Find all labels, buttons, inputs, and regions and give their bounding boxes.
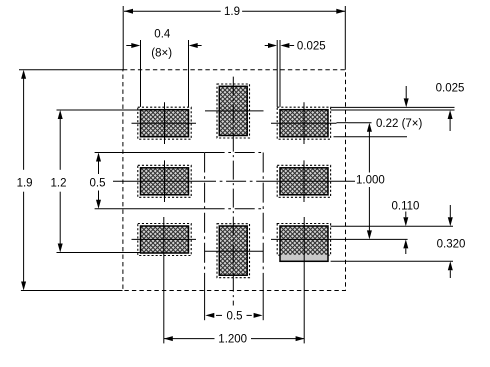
pad P7 horizontal centerline [205,250,264,252]
svg-text:0.5: 0.5 [90,177,106,189]
body outline (dashed component body) [123,70,346,291]
pad P8 covered copper strip (gray) [280,255,328,261]
svg-text:0.4: 0.4 [154,29,171,41]
centroid rectangle (dash-dot 0.5 zone verticals) [205,153,264,292]
pad P3 centerlines [271,102,337,144]
P8 copper top extension line [331,225,453,227]
row1 centerline right extension dash-dot [337,123,349,240]
pad P6 centerlines [132,217,197,343]
dimension 1.000 [368,126,370,236]
pad P8 mask opening (row3 right) [277,224,330,256]
middle column vertical centerline (dash-dot) [232,77,234,306]
dimension 0.320 [449,205,451,278]
dimension 1.200 [164,338,304,340]
dimension 0.4 (8x) [126,40,201,107]
pad P7 mask opening (row3 middle tall) [217,224,250,278]
svg-text:1.9: 1.9 [224,6,240,18]
svg-text:0.025: 0.025 [297,41,326,53]
pad P5 mask opening (row2 right) [277,165,330,197]
pad P8 copper hatched part (row3 right) [280,226,328,255]
P8 copper bottom extension line [331,260,453,262]
pad P4 mask opening (row2 left) [138,165,191,197]
svg-text:1.200: 1.200 [218,334,247,346]
dimension 1.9 left [19,70,123,291]
dimension 0.025 top [265,40,294,107]
pad P5 copper (row2 right) [280,168,328,195]
pad P3 mask opening (row1 right) [277,107,330,139]
dimension 0.5 bottom [216,314,252,316]
pad P1 copper (row1 left) [141,110,189,137]
dimension 1.2 [57,110,141,253]
pad P2 mask opening (row1 middle tall) [217,84,250,138]
svg-text:0.110: 0.110 [392,201,420,213]
pad P5 centerlines [271,160,337,202]
svg-text:1.000: 1.000 [356,175,385,187]
svg-text:0.5: 0.5 [227,310,243,322]
row1 copper bottom extension line [334,136,408,138]
svg-text:0.025: 0.025 [436,83,465,95]
row2 centerline dash-dot extensions [113,180,355,182]
pad P3 copper (row1 right) [280,110,328,137]
pad P4 copper (row2 left) [141,168,189,195]
dimension 0.025 right [406,86,450,131]
centroid rectangle extension lines below body [205,291,264,320]
dimension 0.5 left [95,153,205,209]
svg-text:1.2: 1.2 [51,177,67,189]
svg-text:0.22 (7×): 0.22 (7×) [376,118,423,130]
row3 centerline right solid segment [348,238,408,240]
pad P4 centerlines [132,160,197,202]
svg-text:(8×): (8×) [151,48,172,60]
svg-text:1.9: 1.9 [17,177,33,189]
svg-text:0.320: 0.320 [437,239,466,251]
pad P6 copper (row3 left) [141,226,189,253]
mask/copper top edge extension double lines (right 0.025) [331,107,455,110]
row1 centerline right solid segment (0.22 leader) [348,122,372,124]
pad P2 horizontal centerline [205,110,264,112]
dimension 1.9 top [123,6,345,70]
pad P8 copper outline 0.32 tall [280,226,328,261]
pad P1 mask opening (row1 left) [138,107,191,139]
pad P8 centerlines [271,217,337,343]
pad P6 mask opening (row3 left) [138,224,191,256]
pad P2 copper (row1 middle tall) [219,86,247,135]
dimension 0.110 [405,212,407,255]
pad P7 copper (row3 middle tall) [219,226,247,275]
pad P1 centerlines [132,102,197,144]
